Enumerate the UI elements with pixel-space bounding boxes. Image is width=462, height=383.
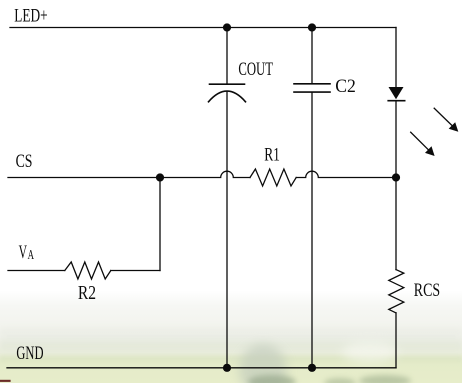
arrow light ray 2 shaft <box>411 132 429 149</box>
wire C2 upper lead <box>311 28 313 84</box>
tree blob center <box>239 344 287 383</box>
svg-text:LED+: LED+ <box>14 6 47 27</box>
capacitor COUT top plate <box>210 83 245 85</box>
junction dot top COUT <box>223 23 231 31</box>
wire CS rail with hop over COUT <box>8 171 250 177</box>
capacitor C2 bottom plate <box>294 91 330 93</box>
arrow light ray 1 head <box>449 122 459 132</box>
distant treeline haze <box>0 328 462 346</box>
svg-text:V: V <box>19 242 28 263</box>
wire vertical VA to CS <box>159 178 161 271</box>
wire right vertical middle <box>395 101 397 270</box>
wire bottom rail GND <box>7 367 396 369</box>
diode LED triangle <box>389 87 404 99</box>
bush right <box>359 375 411 383</box>
svg-text:COUT: COUT <box>238 59 273 80</box>
junction dot bottom COUT <box>223 364 231 372</box>
svg-text:GND: GND <box>16 343 43 364</box>
svg-text:R1: R1 <box>264 144 280 165</box>
junction dot top C2 <box>308 23 316 31</box>
svg-text:R2: R2 <box>78 283 96 304</box>
diode LED cathode bar <box>388 100 405 102</box>
resistor R2 <box>65 262 111 279</box>
wire CS rail with hop over C2 <box>296 171 396 177</box>
svg-text:CS: CS <box>16 151 33 172</box>
wire R2 to corner <box>111 270 160 272</box>
wire top rail LED+ <box>10 27 396 29</box>
wire C2 lower lead <box>311 92 313 368</box>
svg-text:RCS: RCS <box>414 280 440 301</box>
svg-text:C2: C2 <box>335 76 356 97</box>
resistor RCS <box>389 270 404 313</box>
arrow light ray 1 shaft <box>434 108 452 125</box>
bush mid-right <box>324 378 356 383</box>
white cloud patch <box>342 341 398 363</box>
wire right vertical upper <box>395 28 397 88</box>
wire COUT upper lead <box>226 28 228 85</box>
junction dot CS right <box>392 173 400 181</box>
wire VA lead <box>8 270 65 272</box>
capacitor C2 top plate <box>294 83 330 85</box>
red-brown dash bottom-left <box>0 380 11 382</box>
junction dot bottom C2 <box>308 364 316 372</box>
capacitor COUT curved plate <box>209 91 246 102</box>
junction dot CS left <box>156 173 164 181</box>
arrow light ray 2 head <box>425 146 435 156</box>
bush dark center <box>248 375 296 383</box>
wire right vertical lower <box>395 313 397 368</box>
grass horizon band <box>0 356 462 361</box>
resistor R1 <box>250 169 296 186</box>
distant treeline band 2 <box>0 341 462 351</box>
svg-text:A: A <box>28 247 35 262</box>
wire COUT lower lead <box>226 91 228 368</box>
